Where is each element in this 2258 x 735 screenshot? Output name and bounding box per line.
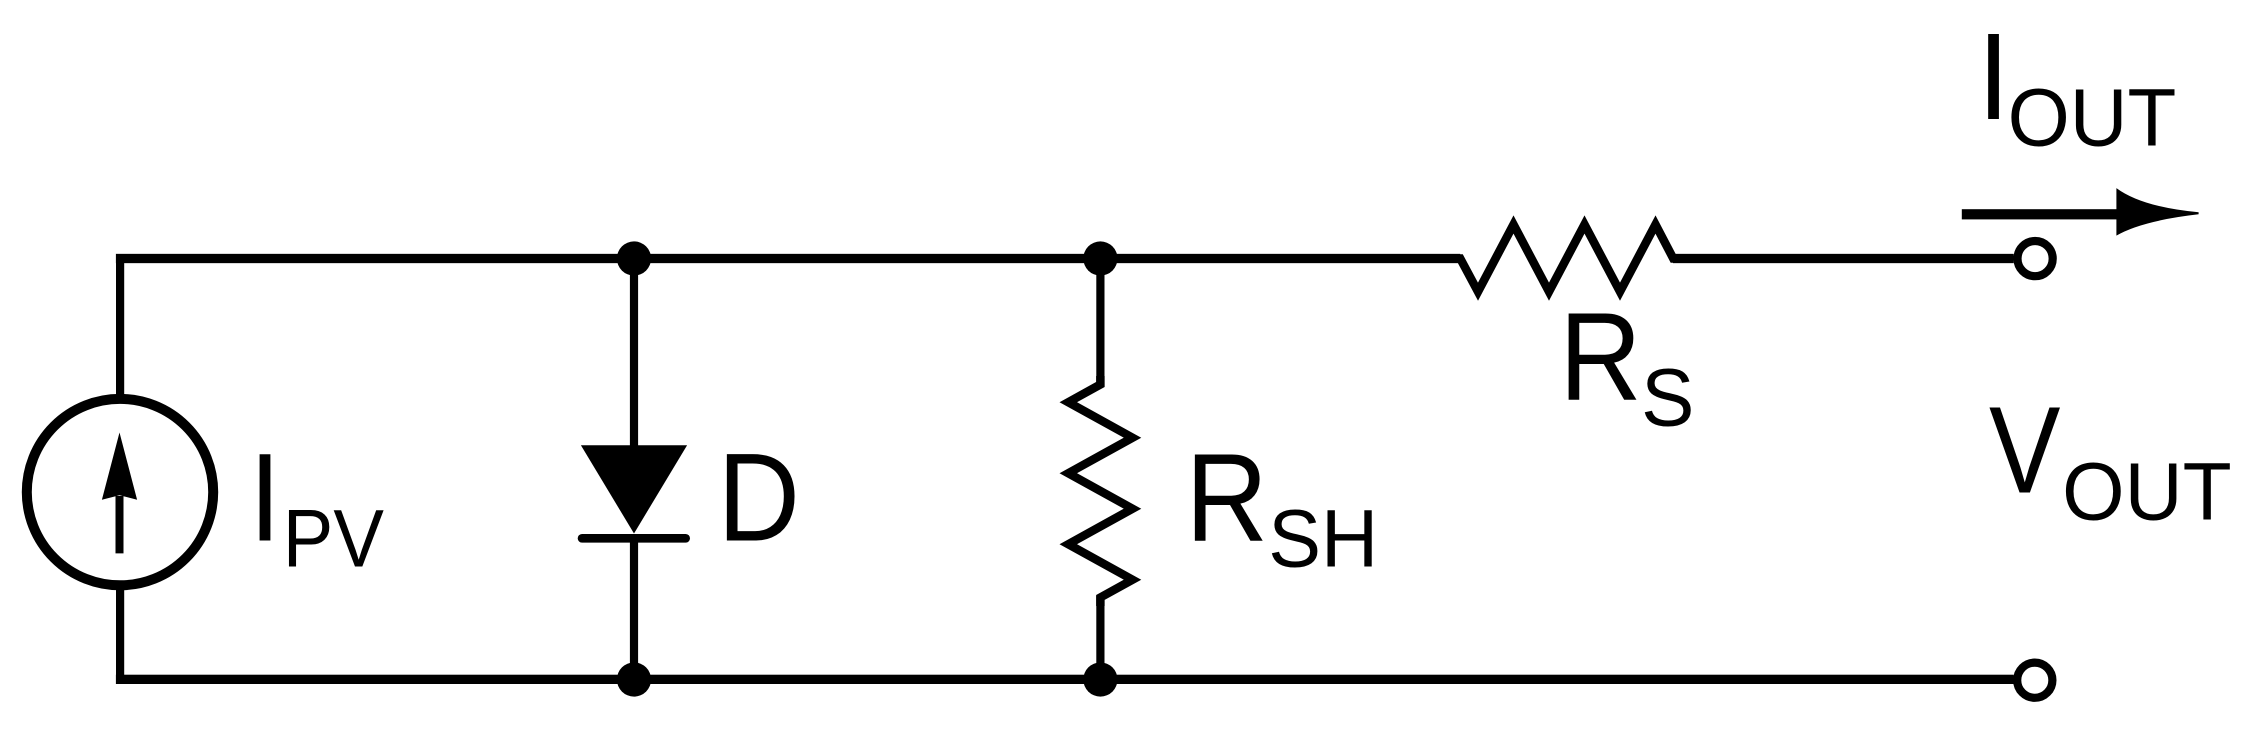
wire left riser bottom: [116, 588, 124, 680]
svg-text:I: I: [249, 427, 281, 568]
diode D cathode bar: [582, 534, 686, 543]
resistor RS zigzag: [1452, 225, 1681, 292]
wire top rail right of Rs: [1673, 254, 2014, 263]
svg-text:PV: PV: [283, 493, 384, 584]
wire diode top lead: [630, 259, 638, 449]
current IOUT arrowhead: [2116, 188, 2198, 236]
wire bottom rail: [116, 675, 2014, 684]
wire diode bottom lead: [630, 538, 638, 680]
node junction top RSH: [1083, 241, 1117, 275]
current IOUT arrow shaft: [1962, 209, 2130, 219]
svg-text:S: S: [1641, 352, 1694, 443]
wire top rail left of Rs: [116, 254, 1460, 263]
node junction bottom diode: [617, 662, 651, 696]
terminal positive output: [2018, 241, 2053, 276]
svg-text:I: I: [1977, 9, 2009, 146]
current source arrowhead: [102, 433, 137, 500]
resistor RSH zigzag: [1068, 376, 1132, 606]
diode D triangle: [581, 445, 687, 533]
current source IPV circle: [27, 399, 213, 585]
node junction top diode: [617, 241, 651, 275]
current source arrow shaft: [116, 496, 124, 553]
svg-text:V: V: [1989, 383, 2060, 520]
terminal negative output: [2017, 663, 2052, 698]
wire left riser top: [120, 259, 634, 401]
svg-text:R: R: [1559, 286, 1642, 427]
svg-text:R: R: [1185, 427, 1268, 568]
node junction bottom RSH: [1083, 662, 1117, 696]
wire RSH bottom lead: [1096, 596, 1104, 680]
svg-text:SH: SH: [1268, 493, 1378, 584]
svg-text:D: D: [718, 427, 801, 568]
svg-text:OUT: OUT: [2062, 447, 2232, 538]
svg-text:OUT: OUT: [2008, 72, 2177, 163]
wire RSH top lead: [1096, 259, 1104, 386]
